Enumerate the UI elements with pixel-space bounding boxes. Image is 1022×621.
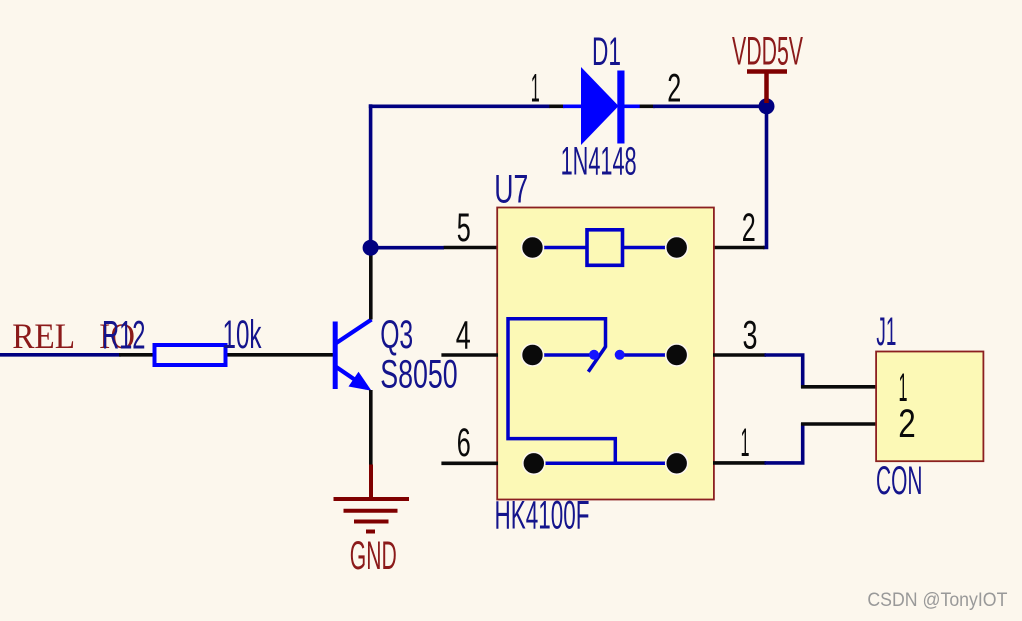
wire pin 4 black [441, 353, 498, 357]
wire pin 1 elbow [765, 423, 803, 463]
wire pin 3 black [713, 353, 766, 357]
wire VDD node to pin 2 [763, 106, 767, 247]
relay U7 body [497, 208, 714, 500]
diode D1 cathode stub [624, 105, 640, 109]
diode D1 pin1 tick [549, 105, 564, 109]
svg-text:4: 4 [456, 314, 471, 358]
svg-text:D1: D1 [592, 30, 621, 74]
relay coil wires [533, 246, 677, 250]
wire top rail horizontal [369, 105, 550, 109]
diode D1 anode stub [563, 105, 582, 109]
connector J1 body [876, 352, 983, 462]
power VDD5V [747, 72, 787, 104]
wire to J1 pin 1 [801, 385, 877, 389]
wire pin 1 black [713, 461, 766, 465]
wire gnd stub [369, 465, 373, 501]
wire pin 6 black [441, 461, 498, 465]
wire diode to VDD [653, 105, 768, 109]
svg-text:CSDN @TonyIOT: CSDN @TonyIOT [867, 590, 1007, 611]
node REL_IO input wire [0, 353, 121, 357]
svg-text:J1: J1 [876, 310, 896, 354]
wire emitter pin down [369, 390, 373, 466]
svg-text:U7: U7 [494, 168, 528, 212]
diode D1 cathode bar [617, 71, 624, 144]
svg-text:GND: GND [350, 534, 397, 578]
wire to J1 pin 2 [801, 422, 877, 426]
relay terminal 6 [523, 452, 545, 474]
relay terminal NO [666, 344, 688, 366]
diode D1 pin2 tick [640, 105, 655, 109]
relay pivot dot right [615, 350, 625, 360]
svg-text:CON: CON [876, 459, 923, 503]
svg-text:HK4100F: HK4100F [495, 494, 590, 538]
junction node collector [363, 240, 379, 256]
svg-text:10k: 10k [223, 313, 263, 357]
svg-text:6: 6 [457, 421, 471, 465]
svg-text:1: 1 [531, 67, 540, 111]
svg-text:R12: R12 [102, 314, 146, 358]
wire resistor left pin [119, 353, 153, 357]
svg-text:2: 2 [742, 206, 756, 250]
relay terminal coil right [666, 237, 688, 259]
svg-text:S8050: S8050 [380, 353, 458, 397]
relay pivot dot left [589, 350, 599, 360]
transistor Q3 [335, 320, 371, 391]
svg-text:1N4148: 1N4148 [561, 140, 637, 184]
wire pin 5 black [444, 246, 498, 250]
svg-text:2: 2 [898, 402, 916, 446]
svg-text:1: 1 [741, 421, 750, 465]
svg-text:VDD5V: VDD5V [732, 29, 803, 73]
relay coil box [587, 230, 623, 265]
relay terminal common [522, 344, 544, 366]
diode D1 triangle [581, 67, 619, 145]
relay switch wires [508, 319, 677, 464]
wire resistor to transistor base [228, 353, 335, 357]
wire pin 3 elbow [765, 355, 803, 388]
ground [334, 499, 410, 532]
resistor R12 body [155, 345, 226, 365]
wire pin 2 black [713, 246, 765, 250]
wire collector pin up [369, 252, 373, 320]
svg-text:3: 3 [743, 314, 758, 358]
wire collector to top rail [369, 104, 373, 249]
svg-text:REL: REL [12, 316, 75, 356]
wire node to U7 pin 5 [371, 246, 444, 250]
svg-text:5: 5 [457, 206, 471, 250]
svg-text:Q3: Q3 [380, 313, 413, 357]
junction node VDD [759, 98, 775, 114]
relay terminal 1 [666, 452, 688, 474]
relay terminal 5 [522, 237, 544, 259]
svg-text:2: 2 [667, 67, 681, 111]
